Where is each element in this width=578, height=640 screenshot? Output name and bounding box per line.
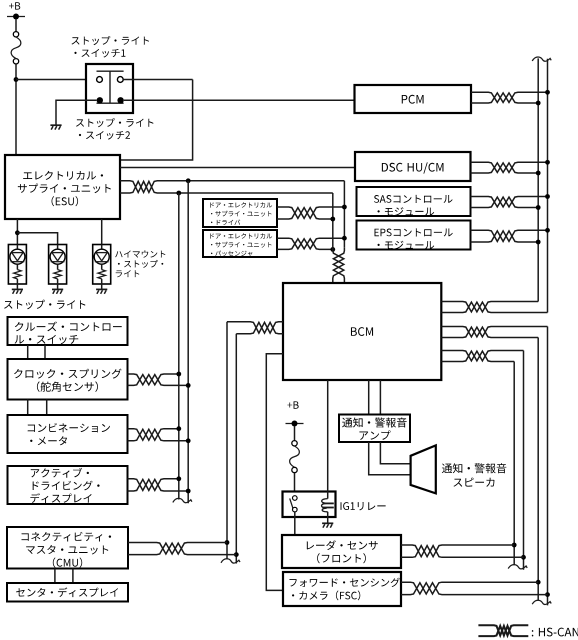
switch SW1/SW2 stop light switch box [86, 64, 133, 113]
node tap [225, 540, 230, 545]
wire [15, 64, 17, 155]
node tap [536, 101, 541, 106]
legend label HS-CAN [532, 628, 578, 637]
wire BCM to FSC [266, 354, 283, 591]
wire [72, 569, 74, 584]
node +B battery feed (top left) [7, 2, 25, 19]
node tap [545, 592, 550, 597]
wire [15, 20, 17, 32]
wire [294, 473, 296, 492]
node tap [536, 580, 541, 585]
relay switch blade [290, 498, 294, 509]
block ESU electrical supply unit [5, 155, 120, 219]
wire bus [547, 327, 549, 606]
wire bus [343, 181, 345, 247]
block forward sensing camera FSC [283, 572, 401, 606]
node tap [186, 178, 191, 183]
wire [16, 219, 18, 245]
wire bus [537, 338, 539, 601]
wire [16, 79, 97, 81]
twisted pair ESU HS-CAN [120, 181, 344, 193]
wire relay output to radar sensor [294, 512, 296, 535]
wire bus [187, 181, 189, 504]
ground (stop light switch 2) [50, 125, 61, 129]
fuse F1 (stop light) [11, 32, 21, 64]
twisted pair SAS [471, 197, 548, 208]
block combination meter [8, 415, 128, 453]
node tap [330, 247, 335, 252]
switch internal bridge bar [97, 71, 124, 103]
block clock spring (steering angle sensor) [8, 359, 128, 400]
wire [44, 345, 46, 359]
twisted pair door ESU driver [277, 207, 344, 219]
wire bus [226, 322, 228, 559]
lamp stop light 2 [49, 245, 67, 294]
wire relay coil feed from BCM [327, 380, 329, 499]
block EPS control module [357, 221, 471, 250]
node junction lamp feed [15, 230, 20, 235]
wire [294, 427, 296, 441]
lamp high mount stop light [93, 245, 111, 294]
switch contact (top left, NO) [97, 77, 103, 83]
wire [27, 400, 29, 416]
node tap [512, 543, 517, 548]
node tap [186, 438, 191, 443]
speaker notification alarm speaker [411, 445, 436, 493]
block door ESU passenger [203, 230, 277, 257]
twisted pair active driving display [128, 479, 189, 491]
label stop lights [4, 300, 85, 310]
twisted pair combination meter [128, 429, 189, 441]
node tap [545, 90, 550, 95]
node tap [176, 426, 181, 431]
node tap [342, 236, 347, 241]
node tap [186, 489, 191, 494]
twisted pair BCM CAN1 (to main bus) [441, 302, 547, 313]
node tap [342, 205, 347, 210]
wire [123, 79, 192, 81]
twisted pair PCM [471, 92, 548, 103]
wire [56, 100, 97, 125]
block PCM [355, 85, 472, 113]
wire bus [178, 193, 180, 500]
label notification alarm speaker [442, 463, 507, 486]
relay switch contact [293, 496, 298, 501]
wire amp to speaker (-) [369, 442, 411, 475]
wire BCM to amp [368, 380, 370, 415]
wire [46, 400, 48, 416]
block SAS control module [357, 187, 471, 216]
wire [120, 80, 193, 161]
block notification alarm amp [339, 415, 410, 443]
node tap [521, 555, 526, 560]
relay switch contact [293, 507, 298, 512]
node tap [176, 476, 181, 481]
wire [327, 512, 329, 524]
wire bus [332, 193, 334, 247]
node tap [545, 194, 550, 199]
node tap [545, 160, 550, 165]
wire bus [513, 362, 515, 566]
node tap [176, 372, 181, 377]
twisted pair radar sensor [401, 545, 524, 557]
node tap [545, 228, 550, 233]
wire [27, 345, 29, 359]
twisted pair vertical into BCM [333, 247, 345, 283]
switch contact (bottom right, NC) [117, 97, 123, 103]
label high mount stop light [115, 250, 165, 277]
wire bus HS-CAN outer [547, 59, 549, 313]
switch contact (bottom left, NC) [97, 97, 103, 103]
label stop light switch 2 [76, 118, 154, 140]
bus termination [532, 600, 551, 604]
wire [124, 99, 355, 101]
wire [54, 569, 56, 584]
twisted pair CMU [128, 543, 236, 555]
wire [17, 233, 57, 245]
wire BCM to amp [379, 380, 381, 415]
node junction [14, 77, 19, 82]
wire [101, 219, 103, 245]
twisted pair clock spring [128, 374, 189, 385]
label IG1 relay [341, 502, 386, 510]
twisted pair BCM CAN3 (to radar) [441, 351, 523, 362]
node tap [330, 217, 335, 222]
block CMU connectivity master unit [7, 527, 128, 569]
twisted pair FSC [401, 582, 548, 594]
block door ESU driver [203, 199, 277, 227]
legend twisted pair symbol HS-CAN [478, 625, 528, 636]
ground (IG1 relay coil) [322, 523, 333, 527]
switch contact (top right, NO) [117, 77, 123, 83]
label stop light switch 1 [72, 36, 150, 58]
twisted pair BCM left (to CMU) [227, 322, 283, 334]
twisted pair EPS [471, 230, 548, 242]
block cruise control switch [8, 317, 128, 345]
relay IG1 relay box [283, 492, 336, 518]
block radar sensor front [282, 535, 401, 568]
wire bus [235, 334, 237, 564]
twisted pair BCM CAN2 (to FSC) [441, 327, 547, 338]
wire bus [523, 351, 525, 570]
node tap [536, 171, 541, 176]
bus termination [173, 498, 192, 502]
node tap [234, 552, 239, 557]
bus termination [221, 559, 240, 563]
wire bus HS-CAN inner [537, 58, 539, 301]
block DSC HU/CM [355, 152, 471, 181]
bus termination [508, 565, 527, 569]
block active driving display [8, 466, 128, 504]
fuse F2 (IG1) [290, 441, 300, 473]
block center display [7, 583, 128, 602]
relay coil [322, 499, 334, 512]
bus termination (top) [532, 57, 551, 61]
node tap [536, 240, 541, 245]
lamp stop light 1 [8, 245, 26, 294]
node +B battery feed (IG1) [286, 401, 304, 426]
node tap [176, 191, 181, 196]
twisted pair DSC [471, 162, 548, 173]
node tap [536, 205, 541, 210]
twisted pair door ESU passenger [277, 238, 344, 249]
node tap [186, 383, 191, 388]
wire amp to speaker (+) [380, 442, 410, 464]
block BCM body control module [283, 283, 441, 380]
wire ESU to DSC HU/CM [120, 167, 355, 169]
